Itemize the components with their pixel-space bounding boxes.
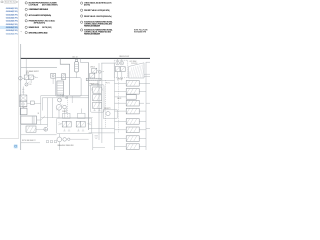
svg-text:38 PSI (262 kPa): 38 PSI (262 kPa) bbox=[34, 23, 46, 25]
svg-text:REAR AXLE STABILIZER: REAR AXLE STABILIZER bbox=[58, 144, 74, 147]
svg-text:PUMP: PUMP bbox=[62, 111, 66, 113]
svg-text:P1 BRAKE SUPPLY: P1 BRAKE SUPPLY bbox=[27, 70, 40, 73]
svg-text:6140-1044 (1 OF 5): 6140-1044 (1 OF 5) bbox=[6, 8, 18, 10]
svg-text:11700 PSI: 11700 PSI bbox=[131, 63, 138, 65]
svg-text:(NOT USED W/ BKT): (NOT USED W/ BKT) bbox=[42, 5, 58, 7]
svg-text:HYD TANK: HYD TANK bbox=[130, 60, 137, 63]
svg-text:38: 38 bbox=[38, 113, 40, 115]
svg-text:6140-1044 (2 OF 5): 6140-1044 (2 OF 5) bbox=[6, 11, 18, 13]
svg-text:VALVE: VALVE bbox=[117, 97, 121, 100]
svg-text:6140-1045 (1 OF 5): 6140-1045 (1 OF 5) bbox=[6, 24, 18, 26]
svg-text:38 PSI (262): 38 PSI (262) bbox=[42, 27, 52, 29]
svg-text:M1: M1 bbox=[30, 84, 32, 86]
svg-text:ACCUMULATOR - 150 PSI (1035 kP: ACCUMULATOR - 150 PSI (1035 kPa) bbox=[29, 14, 52, 17]
svg-text:BRAKE VALVE: BRAKE VALVE bbox=[29, 26, 40, 29]
svg-text:RELIEF: RELIEF bbox=[118, 79, 123, 81]
svg-text:DIRECTIONAL CONTROL VALVE: DIRECTIONAL CONTROL VALVE bbox=[29, 31, 49, 34]
svg-text:6140-1044 (3 OF 5): 6140-1044 (3 OF 5) bbox=[6, 14, 18, 16]
svg-text:LOOP VALVE: LOOP VALVE bbox=[29, 4, 39, 7]
svg-text:REAR AXLE STABILIZER: REAR AXLE STABILIZER bbox=[84, 33, 101, 36]
svg-text:W/ ENGINE RPM: W/ ENGINE RPM bbox=[134, 31, 147, 33]
svg-text:◄: ◄ bbox=[102, 71, 104, 73]
svg-text:PRIORITY VALVE - NOTE (4.5 GPM: PRIORITY VALVE - NOTE (4.5 GPM) bbox=[84, 9, 110, 12]
svg-text:6140-1045 (2 OF 5): 6140-1045 (2 OF 5) bbox=[6, 27, 18, 29]
svg-text:6140-1045 (4 OF 5): 6140-1045 (4 OF 5) bbox=[6, 33, 18, 35]
svg-text:ST CYL: ST CYL bbox=[22, 106, 27, 108]
svg-text:CHECK: CHECK bbox=[90, 67, 95, 69]
svg-text:6140-1044 (4 OF 5): 6140-1044 (4 OF 5) bbox=[6, 18, 18, 20]
svg-text:RELIEF VALVE - 2900 PSI (20000: RELIEF VALVE - 2900 PSI (20000 kPa) bbox=[84, 15, 112, 18]
svg-text:6140-1045 (3 OF 5): 6140-1045 (3 OF 5) bbox=[6, 30, 18, 32]
svg-text:PRIORITY: PRIORITY bbox=[104, 108, 111, 110]
svg-text:TANDEM PUMP: TANDEM PUMP bbox=[119, 55, 129, 58]
svg-text:6140-1044 (5 OF 5): 6140-1044 (5 OF 5) bbox=[6, 21, 18, 23]
svg-text:D40: D40 bbox=[27, 73, 30, 75]
svg-text:CASE DRAIN ACTUATION VALVE: CASE DRAIN ACTUATION VALVE bbox=[29, 8, 49, 11]
svg-text:P2 T1: P2 T1 bbox=[106, 83, 110, 85]
svg-text:NOTE: SEE SHEET 2: NOTE: SEE SHEET 2 bbox=[22, 140, 36, 142]
svg-text:NOTE: FULL FLOW: NOTE: FULL FLOW bbox=[134, 30, 148, 32]
svg-text:ACC 14: ACC 14 bbox=[73, 56, 78, 59]
svg-text:REAR AXLE STABILIZER: REAR AXLE STABILIZER bbox=[84, 25, 101, 28]
svg-text:(NOTE): (NOTE) bbox=[84, 5, 90, 7]
